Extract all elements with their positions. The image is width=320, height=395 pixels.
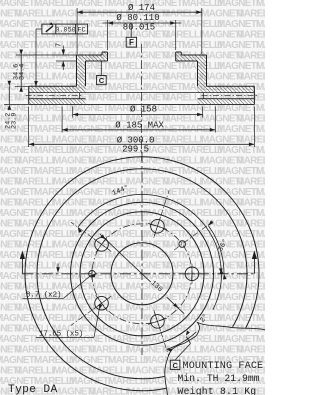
center bore dia80 [111, 243, 173, 305]
tick arrow on centerline [57, 264, 59, 272]
svg-text:Min. TH 21.9mm: Min. TH 21.9mm [178, 373, 260, 384]
front view outer circle [25, 157, 259, 391]
bolt hole 3 [95, 238, 109, 252]
svg-text:Weight 8.1 Kg: Weight 8.1 Kg [178, 386, 257, 395]
svg-text:23.9: 23.9 [11, 113, 19, 129]
bolt hole 5 [151, 315, 165, 329]
svg-text:7: 7 [56, 43, 64, 47]
circle dia158 [80, 212, 204, 336]
section outline [77, 54, 103, 56]
svg-text:299.5: 299.5 [122, 145, 149, 155]
runout FC frame [42, 24, 88, 34]
svg-text:MOUNTING FACE: MOUNTING FACE [183, 361, 264, 372]
section arrow right [253, 258, 255, 274]
section hatching [77, 55, 108, 61]
svg-text:Ø 185 MAX: Ø 185 MAX [115, 120, 164, 130]
circle dia185 [71, 202, 214, 345]
bolt hole 2 [151, 219, 165, 233]
dim 144deg arc [78, 194, 221, 268]
bolt hole 1 [185, 267, 199, 281]
svg-text:Ø 158: Ø 158 [130, 105, 157, 115]
break wavy line [165, 323, 265, 395]
callout C mounting face [170, 360, 180, 369]
svg-text:F: F [129, 38, 134, 47]
svg-text:80.015: 80.015 [123, 23, 155, 33]
vertical centerline [141, 152, 143, 344]
svg-text:34.4: 34.4 [18, 64, 26, 80]
bolt circle dia130 [92, 224, 192, 324]
dim 36deg arc [208, 226, 224, 274]
datum C box [100, 61, 102, 76]
svg-text:Type DA: Type DA [8, 384, 58, 395]
svg-text:0.050: 0.050 [55, 27, 75, 35]
dim 130 diagonal [100, 234, 151, 282]
bolt hole 4 [95, 296, 109, 310]
svg-text:C: C [99, 76, 105, 85]
section centerline [141, 44, 143, 161]
svg-text:Ø 80.110: Ø 80.110 [116, 13, 159, 23]
circle dia268 [37, 169, 247, 379]
small hole 8.7 at 36deg [179, 241, 186, 248]
dim 72deg arc [167, 332, 197, 349]
vent centerline [26, 95, 82, 97]
section arrow left [21, 258, 23, 274]
horizontal centerline [22, 273, 254, 275]
mounting face leader [176, 344, 191, 360]
dim 34.6/34.4 [16, 54, 77, 56]
svg-text:Ø 174: Ø 174 [128, 3, 155, 13]
FC leader [36, 28, 42, 30]
svg-text:C: C [172, 361, 178, 370]
dim 24.2/23.9 [4, 103, 29, 105]
small hole 8.7 at 180deg [89, 271, 96, 278]
datum F box [130, 23, 132, 37]
bolt hole axes [154, 190, 169, 238]
svg-text:FC: FC [77, 27, 85, 35]
